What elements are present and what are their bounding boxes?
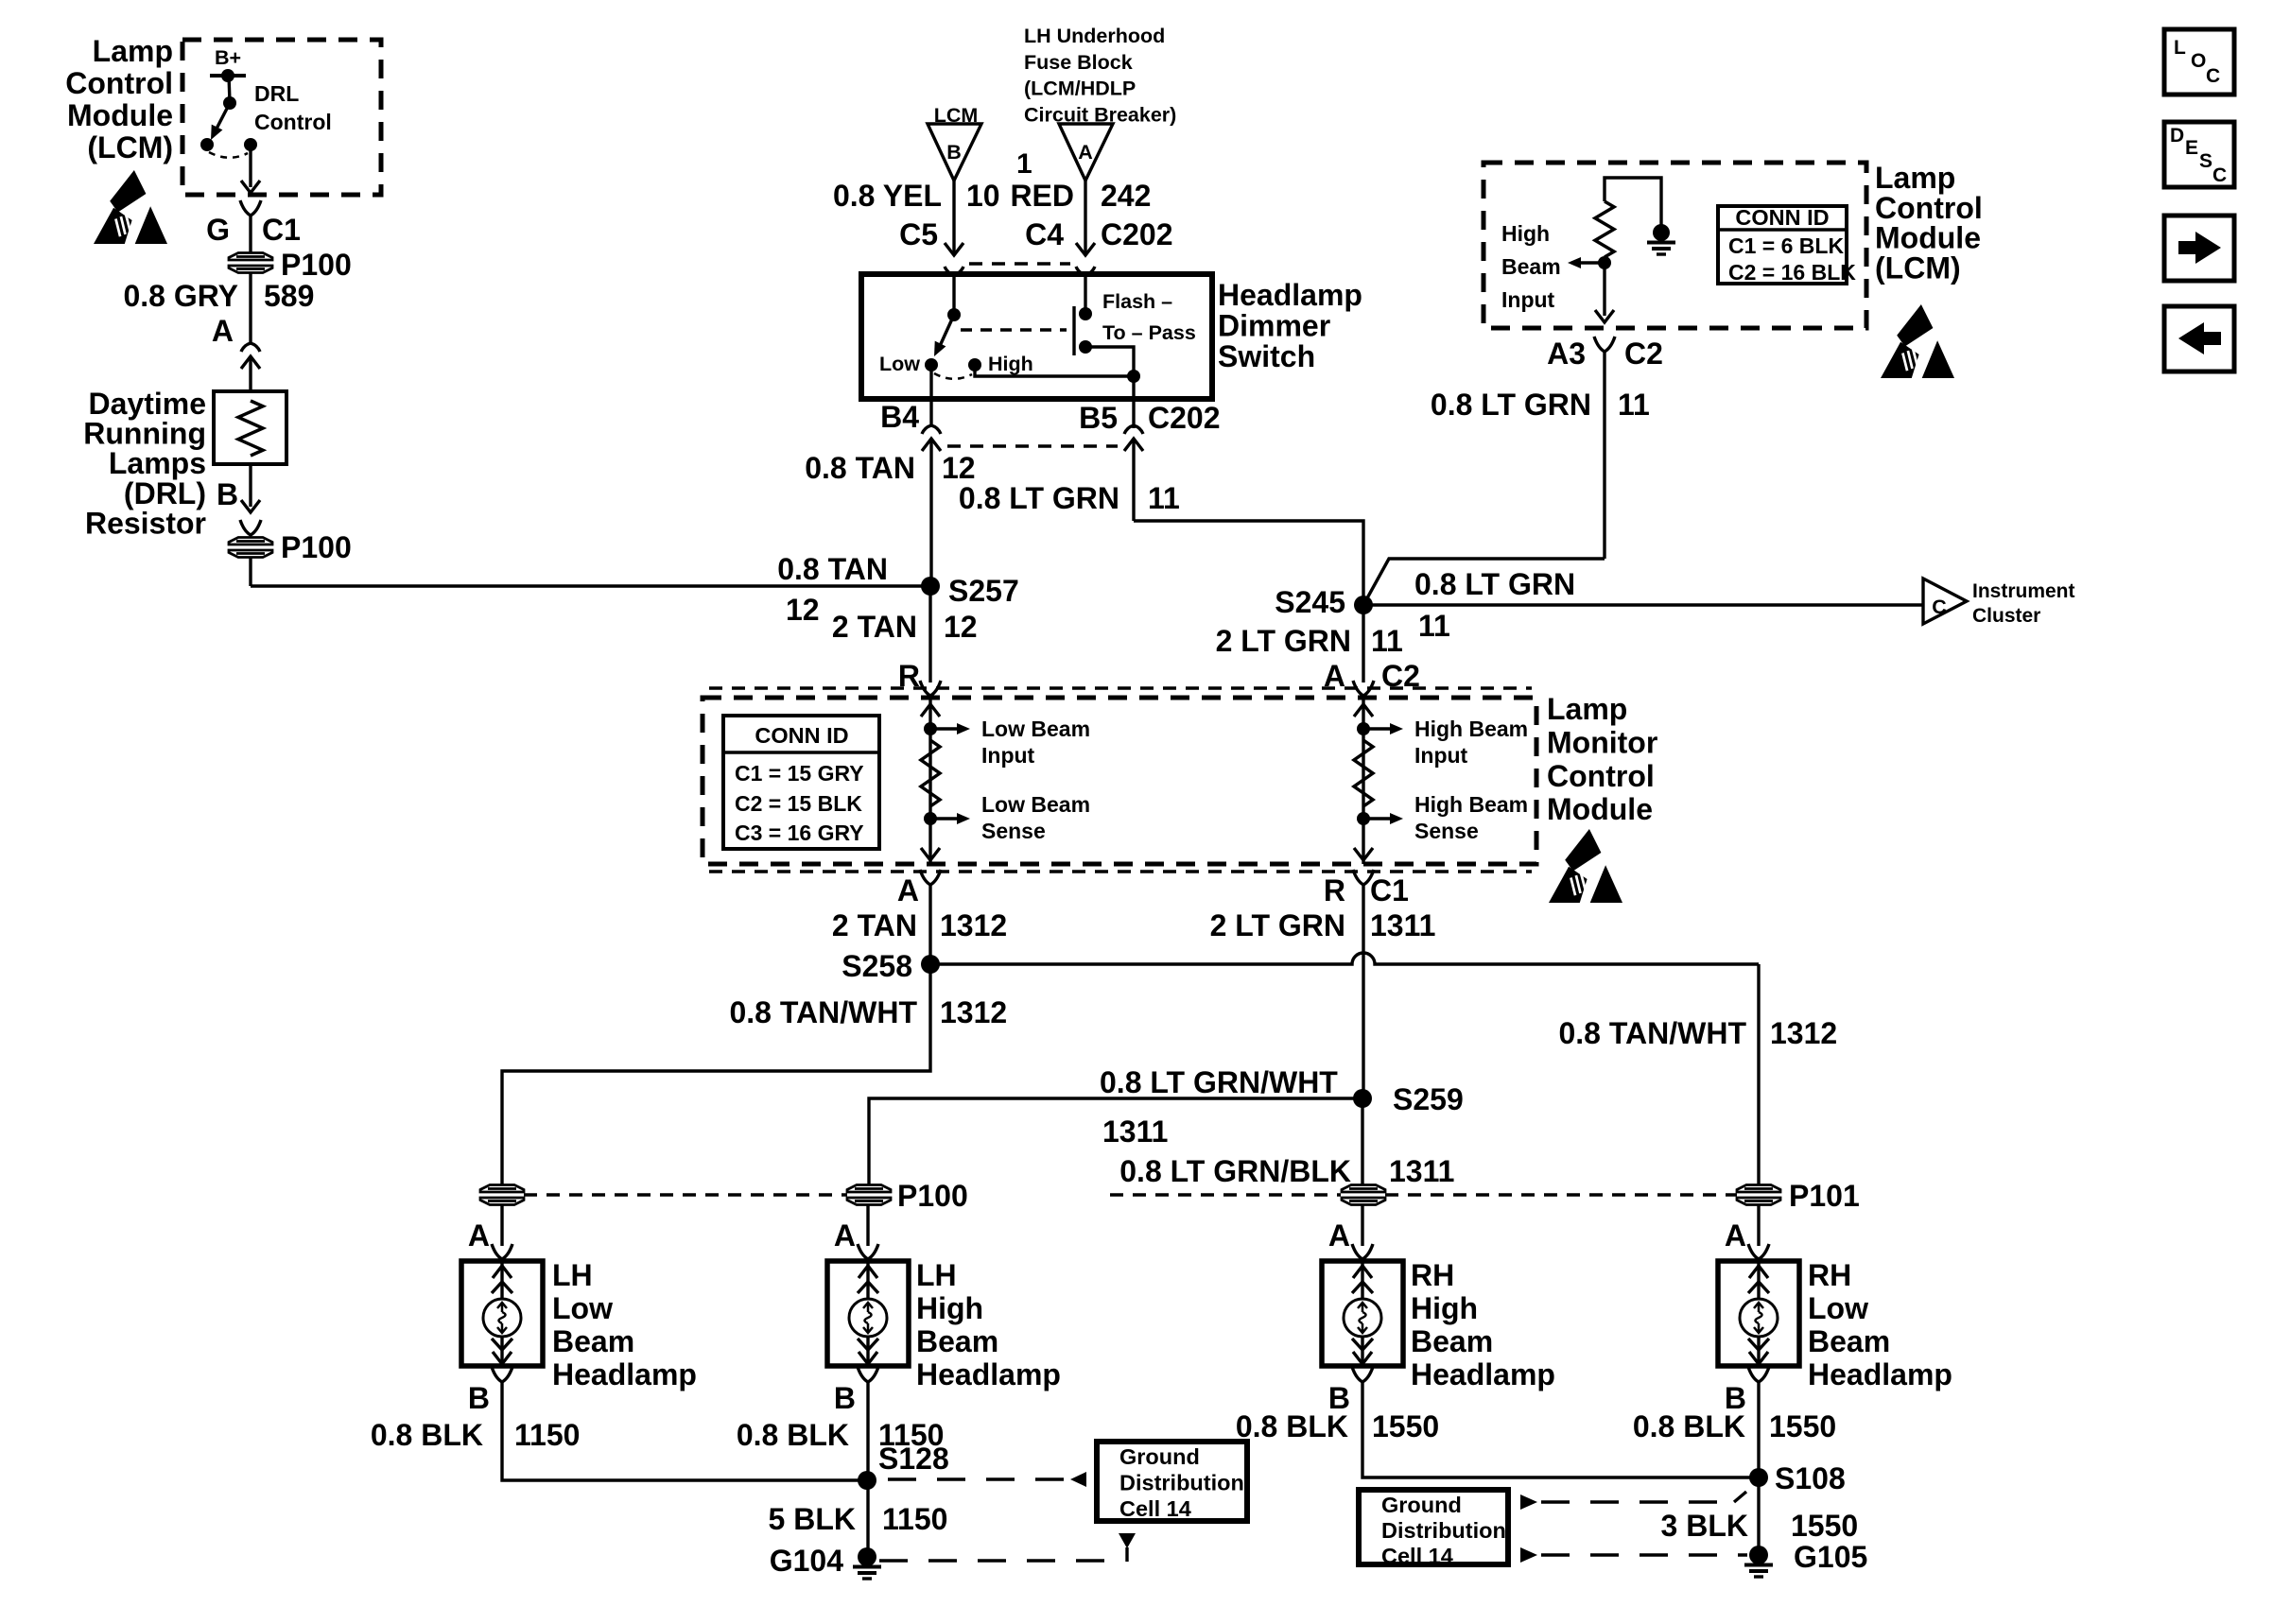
- svg-text:C1 = 6 BLK: C1 = 6 BLK: [1728, 233, 1844, 258]
- svg-text:1311: 1311: [1389, 1154, 1454, 1188]
- svg-text:High: High: [1501, 221, 1550, 246]
- svg-text:Module: Module: [1547, 792, 1653, 826]
- svg-text:12: 12: [942, 451, 976, 485]
- svg-text:Low: Low: [879, 353, 920, 375]
- svg-text:To – Pass: To – Pass: [1102, 321, 1196, 344]
- svg-text:1550: 1550: [1769, 1409, 1836, 1443]
- svg-text:Beam: Beam: [916, 1324, 998, 1358]
- svg-text:0.8 LT GRN: 0.8 LT GRN: [1431, 388, 1591, 422]
- connector P100 #2: [229, 538, 272, 545]
- pin B of RH High: [1352, 1367, 1373, 1382]
- connector C202 dashed line top: [969, 262, 1070, 265]
- svg-text:P100: P100: [281, 530, 352, 564]
- svg-text:B: B: [468, 1381, 490, 1415]
- B+ feed bar: [210, 74, 246, 78]
- svg-text:589: 589: [264, 279, 314, 313]
- LOC nav box: [2164, 29, 2234, 95]
- wire into LH High beam headlamp: [866, 1204, 869, 1246]
- wire RH high B to S108: [1362, 1381, 1759, 1477]
- svg-text:Instrument: Instrument: [1972, 580, 2075, 602]
- svg-text:242: 242: [1101, 179, 1151, 213]
- svg-text:High: High: [988, 353, 1033, 375]
- svg-text:C2 = 16 BLK: C2 = 16 BLK: [1728, 260, 1856, 285]
- svg-text:C2 = 15 BLK: C2 = 15 BLK: [735, 791, 862, 816]
- dashed link arm to flash-to-pass: [961, 328, 1067, 331]
- svg-text:Flash –: Flash –: [1102, 290, 1172, 313]
- svg-text:Sense: Sense: [1414, 819, 1479, 843]
- svg-text:C2: C2: [1624, 337, 1663, 371]
- svg-text:1312: 1312: [940, 995, 1007, 1029]
- svg-text:LH: LH: [916, 1258, 957, 1292]
- svg-text:Beam: Beam: [552, 1324, 634, 1358]
- wire label 0.8 GRY 589: [249, 273, 252, 343]
- svg-text:Monitor: Monitor: [1547, 725, 1657, 759]
- svg-text:Control: Control: [254, 110, 332, 134]
- svg-text:Cell 14: Cell 14: [1119, 1496, 1191, 1521]
- ESD symbol middle: [1565, 829, 1601, 872]
- svg-text:0.8 YEL: 0.8 YEL: [833, 179, 942, 213]
- svg-text:Cell 14: Cell 14: [1381, 1544, 1453, 1568]
- flash-to-pass bar: [1072, 306, 1075, 355]
- low beam resistor leg: [928, 698, 931, 864]
- svg-text:CONN ID: CONN ID: [1735, 205, 1829, 230]
- wire C5 into dimmer switch: [952, 275, 955, 312]
- junction S258: [921, 955, 940, 974]
- svg-text:DRL: DRL: [254, 81, 299, 106]
- svg-text:B+: B+: [215, 46, 241, 69]
- junction S259: [1353, 1089, 1372, 1108]
- svg-text:S259: S259: [1393, 1082, 1464, 1116]
- high beam resistor leg: [1362, 698, 1364, 864]
- svg-text:R: R: [1324, 873, 1345, 907]
- svg-text:C1 = 15 GRY: C1 = 15 GRY: [735, 761, 864, 786]
- svg-text:S: S: [2199, 150, 2212, 172]
- B4 inline connector male/female: [922, 425, 941, 434]
- wire S258 right to RH low branch with hop: [930, 953, 1759, 964]
- svg-text:Lamp: Lamp: [1875, 161, 1955, 195]
- svg-text:B: B: [946, 141, 962, 164]
- svg-text:1550: 1550: [1372, 1409, 1439, 1443]
- pin B of LH High: [858, 1367, 878, 1382]
- wire: DRL control output: [249, 145, 252, 187]
- svg-text:LH Underhood: LH Underhood: [1024, 25, 1165, 47]
- svg-text:Fuse Block: Fuse Block: [1024, 51, 1133, 74]
- ground G104: [858, 1547, 876, 1566]
- thin dashed connector line top: [709, 686, 1532, 689]
- svg-text:0.8 TAN: 0.8 TAN: [805, 451, 915, 485]
- wire A3C2 down to S245: [1363, 559, 1605, 605]
- LH High Beam Headlamp box: [827, 1261, 909, 1366]
- svg-text:S108: S108: [1775, 1461, 1846, 1495]
- svg-text:Switch: Switch: [1218, 339, 1315, 373]
- wire 0.8 LT GRN 11 from B5: [1132, 439, 1135, 521]
- svg-text:Control: Control: [1547, 759, 1655, 793]
- internal resistor (right LCM): [1605, 178, 1661, 225]
- svg-text:0.8 LT GRN: 0.8 LT GRN: [1414, 567, 1575, 601]
- svg-text:P100: P100: [897, 1179, 968, 1213]
- svg-text:A: A: [1328, 1218, 1350, 1253]
- svg-text:E: E: [2185, 137, 2198, 159]
- svg-text:Beam: Beam: [1808, 1324, 1890, 1358]
- svg-text:A: A: [834, 1218, 856, 1253]
- svg-text:B5: B5: [1079, 401, 1118, 435]
- B5 inline connector male/female: [1124, 425, 1143, 434]
- svg-text:Control: Control: [1875, 191, 1983, 225]
- DRL switch stem: [229, 76, 230, 102]
- svg-text:RH: RH: [1411, 1258, 1454, 1292]
- svg-text:High Beam: High Beam: [1414, 717, 1528, 741]
- svg-text:Beam: Beam: [1411, 1324, 1493, 1358]
- connector RH high: [1342, 1185, 1385, 1193]
- svg-text:A: A: [1725, 1218, 1746, 1253]
- lamp monitor dashed box: [703, 698, 1536, 864]
- svg-text:B4: B4: [880, 400, 919, 434]
- internal ground (right LCM): [1653, 224, 1670, 241]
- RH High Beam Headlamp box: [1322, 1261, 1403, 1366]
- Headlamp Dimmer Switch box: [861, 274, 1212, 399]
- LCM dashed box top-left: [182, 40, 381, 195]
- svg-text:12: 12: [786, 593, 820, 627]
- wire LH high B to S128/G104: [866, 1381, 869, 1557]
- svg-text:2 LT GRN: 2 LT GRN: [1216, 624, 1351, 658]
- svg-text:11: 11: [1418, 609, 1450, 643]
- dimmer switch arm: [940, 315, 954, 346]
- wire S259 down to RH high branch: [1361, 1098, 1363, 1185]
- svg-text:G: G: [206, 213, 230, 247]
- svg-text:LH: LH: [552, 1258, 593, 1292]
- svg-text:High: High: [916, 1291, 983, 1325]
- svg-text:C202: C202: [1148, 401, 1221, 435]
- svg-text:Daytime: Daytime: [89, 387, 207, 421]
- wire 0.8 TAN 12 from B4 to S257: [929, 439, 932, 586]
- wire Low contact down to B4: [929, 365, 932, 399]
- wire S259 left to LH high branch: [869, 1098, 1362, 1185]
- svg-text:10: 10: [966, 179, 1000, 213]
- wire S245 to instrument cluster: [1363, 603, 1923, 606]
- junction S257: [921, 577, 940, 596]
- svg-text:11: 11: [1371, 624, 1403, 658]
- connector P101 RH low: [1737, 1185, 1780, 1193]
- svg-text:(LCM): (LCM): [1875, 251, 1961, 285]
- LCM dashed box right: [1484, 163, 1866, 328]
- svg-text:2 TAN: 2 TAN: [832, 908, 917, 942]
- DRL switch dashed arc: [209, 152, 248, 158]
- svg-text:Running: Running: [83, 417, 206, 451]
- svg-text:Cluster: Cluster: [1972, 605, 2040, 627]
- dimmer contacts Low High: [925, 358, 938, 371]
- svg-text:Dimmer: Dimmer: [1218, 309, 1330, 343]
- svg-text:1150: 1150: [882, 1502, 947, 1536]
- flash lower contact: [1079, 340, 1092, 354]
- svg-text:Headlamp: Headlamp: [1218, 278, 1362, 312]
- wire High contact to B5 junction: [975, 365, 1134, 376]
- wire into RH Low beam headlamp: [1757, 1204, 1760, 1246]
- svg-text:0.8 LT GRN: 0.8 LT GRN: [959, 481, 1119, 515]
- svg-text:D: D: [2170, 125, 2184, 147]
- DRL resistor box: [214, 391, 286, 464]
- ground G105: [1749, 1546, 1768, 1564]
- svg-text:Beam: Beam: [1501, 254, 1561, 279]
- svg-text:Resistor: Resistor: [85, 506, 206, 540]
- ground distribution cell 14 box right: [1359, 1490, 1508, 1564]
- wire B5 over to S245: [1134, 521, 1363, 605]
- svg-text:11: 11: [1618, 388, 1650, 422]
- dashed ref to G105: [1520, 1547, 1537, 1563]
- svg-text:G104: G104: [770, 1544, 843, 1578]
- svg-text:0.8 TAN: 0.8 TAN: [777, 552, 888, 586]
- RH Low Beam Headlamp box: [1718, 1261, 1799, 1366]
- svg-text:1311: 1311: [1370, 908, 1435, 942]
- svg-text:L: L: [2174, 37, 2186, 59]
- svg-text:G105: G105: [1794, 1540, 1867, 1574]
- connector P100 #1: [229, 253, 272, 261]
- svg-text:3 BLK: 3 BLK: [1661, 1509, 1748, 1543]
- svg-text:0.8 TAN/WHT: 0.8 TAN/WHT: [729, 995, 917, 1029]
- triangle A (fuse block): [1059, 124, 1113, 181]
- svg-text:0.8 LT GRN/BLK: 0.8 LT GRN/BLK: [1119, 1154, 1351, 1188]
- svg-text:0.8 BLK: 0.8 BLK: [1236, 1409, 1348, 1443]
- svg-text:P100: P100: [281, 248, 352, 282]
- svg-text:C1: C1: [262, 213, 301, 247]
- R pin female: [920, 681, 941, 696]
- svg-text:Sense: Sense: [981, 819, 1046, 843]
- svg-text:Input: Input: [1501, 287, 1555, 312]
- svg-text:Control: Control: [65, 66, 173, 100]
- svg-text:C1: C1: [1370, 873, 1409, 907]
- dimmer dashed arc Low-High: [934, 373, 972, 379]
- ESD symbol right: [1897, 304, 1933, 347]
- svg-text:2 LT GRN: 2 LT GRN: [1210, 908, 1345, 942]
- A pin bottom female: [920, 870, 941, 885]
- svg-text:A: A: [468, 1218, 490, 1253]
- svg-text:S128: S128: [878, 1442, 949, 1476]
- dashed ref G104 to ground distribution: [879, 1559, 1104, 1562]
- svg-text:12: 12: [944, 610, 978, 644]
- svg-text:A3: A3: [1547, 337, 1586, 371]
- svg-text:5 BLK: 5 BLK: [769, 1502, 856, 1536]
- svg-text:11: 11: [1148, 481, 1180, 515]
- svg-text:B: B: [217, 477, 238, 511]
- svg-text:2 TAN: 2 TAN: [832, 610, 917, 644]
- svg-text:0.8 BLK: 0.8 BLK: [1633, 1409, 1745, 1443]
- C4 inline connector male/female: [1076, 243, 1095, 255]
- svg-text:Lamps: Lamps: [109, 446, 206, 480]
- svg-text:C: C: [2206, 65, 2220, 87]
- svg-text:Distribution: Distribution: [1381, 1518, 1506, 1543]
- wire down from resistor to A3 C2: [1603, 263, 1605, 316]
- svg-text:Low Beam: Low Beam: [981, 792, 1090, 817]
- svg-text:S257: S257: [948, 574, 1019, 608]
- C202 bottom dashed line: [947, 444, 1118, 447]
- wire flash contact to B5 junction: [1085, 347, 1134, 373]
- svg-text:High: High: [1411, 1291, 1478, 1325]
- svg-text:A: A: [897, 873, 919, 907]
- DESC nav box: [2164, 122, 2234, 187]
- wire S245 down to lamp monitor A pin: [1362, 605, 1364, 682]
- svg-text:C: C: [2212, 164, 2227, 186]
- svg-text:C: C: [1932, 596, 1947, 618]
- svg-text:S245: S245: [1275, 585, 1345, 619]
- svg-text:Headlamp: Headlamp: [916, 1357, 1061, 1391]
- dashed line P100-P101: [524, 1193, 847, 1196]
- svg-text:1: 1: [1016, 148, 1032, 180]
- svg-text:0.8 LT GRN/WHT: 0.8 LT GRN/WHT: [1100, 1065, 1338, 1099]
- DRL switch contacts: [200, 138, 214, 151]
- dashed ref S128 to ground distribution: [888, 1477, 1067, 1480]
- pin G C1 female: [240, 200, 261, 216]
- svg-text:1312: 1312: [1770, 1016, 1837, 1050]
- svg-text:0.8 GRY: 0.8 GRY: [123, 279, 238, 313]
- svg-text:S258: S258: [842, 949, 912, 983]
- svg-text:Ground: Ground: [1119, 1444, 1200, 1469]
- prev arrow nav box: [2164, 306, 2234, 371]
- svg-text:O: O: [2191, 50, 2206, 72]
- svg-text:C4: C4: [1025, 217, 1064, 251]
- svg-text:Input: Input: [981, 743, 1035, 768]
- svg-text:Low: Low: [552, 1291, 613, 1325]
- svg-text:Ground: Ground: [1381, 1493, 1462, 1517]
- svg-text:Module: Module: [67, 98, 173, 132]
- connector P100 LH low: [480, 1185, 524, 1193]
- pin B of LH Low: [492, 1367, 512, 1382]
- triangle B (from LCM): [928, 124, 981, 181]
- R C1 pin bottom female: [1353, 870, 1374, 885]
- svg-text:C202: C202: [1101, 217, 1173, 251]
- svg-text:1150: 1150: [514, 1418, 580, 1452]
- svg-text:Input: Input: [1414, 743, 1468, 768]
- svg-text:Distribution: Distribution: [1119, 1471, 1244, 1495]
- next arrow nav box: [2164, 216, 2234, 281]
- svg-text:Lamp: Lamp: [1547, 692, 1627, 726]
- svg-text:Headlamp: Headlamp: [1411, 1357, 1555, 1391]
- wire RH low B to S108/G105: [1757, 1381, 1760, 1555]
- instrument cluster triangle C: [1923, 579, 1967, 624]
- svg-text:(LCM): (LCM): [87, 130, 173, 164]
- junction S108: [1749, 1468, 1768, 1487]
- dashed ref to S108 wire: [1520, 1494, 1537, 1510]
- thin dashed connector line bottom: [709, 870, 1532, 872]
- arrow to High Beam Input: [1581, 261, 1605, 264]
- svg-text:1550: 1550: [1791, 1509, 1858, 1543]
- A pin female: [1353, 681, 1374, 696]
- svg-text:1311: 1311: [1102, 1114, 1168, 1149]
- svg-text:(LCM/HDLP: (LCM/HDLP: [1024, 78, 1136, 100]
- svg-text:C3 = 16 GRY: C3 = 16 GRY: [735, 821, 864, 845]
- ground distribution cell 14 box left: [1097, 1442, 1247, 1521]
- pin B of RH Low: [1748, 1367, 1769, 1382]
- wire into LH Low beam headlamp: [500, 1204, 503, 1246]
- svg-text:Lamp: Lamp: [93, 34, 173, 68]
- svg-text:P101: P101: [1789, 1179, 1860, 1213]
- wire B5 junction down: [1132, 376, 1135, 428]
- svg-text:(DRL): (DRL): [124, 476, 206, 510]
- junction S128: [858, 1471, 876, 1490]
- DRL switch arm: [216, 103, 230, 130]
- connector P100 LH high: [847, 1185, 891, 1193]
- wire 0.8 YEL 10 from LCM B: [952, 181, 955, 250]
- ESD symbol left: [110, 170, 146, 213]
- svg-text:Low: Low: [1808, 1291, 1868, 1325]
- wire: DRL resistor to S257: [249, 558, 252, 586]
- svg-text:Module: Module: [1875, 221, 1981, 255]
- svg-text:High Beam: High Beam: [1414, 792, 1528, 817]
- svg-text:Low Beam: Low Beam: [981, 717, 1090, 741]
- svg-text:0.8 BLK: 0.8 BLK: [371, 1418, 483, 1452]
- junction S245: [1354, 596, 1373, 614]
- svg-text:A: A: [1078, 141, 1093, 164]
- svg-text:CONN ID: CONN ID: [755, 723, 848, 748]
- svg-text:C5: C5: [899, 217, 938, 251]
- C5 inline connector male/female: [945, 243, 963, 255]
- wire LH low B to S128: [502, 1381, 867, 1480]
- wire into RH High beam headlamp: [1361, 1204, 1363, 1246]
- wire C4 into flash contact: [1084, 275, 1086, 310]
- CONN ID table right: [1718, 206, 1847, 284]
- svg-text:0.8 TAN/WHT: 0.8 TAN/WHT: [1558, 1016, 1746, 1050]
- svg-text:RH: RH: [1808, 1258, 1851, 1292]
- LH Low Beam Headlamp box: [461, 1261, 543, 1366]
- svg-text:1312: 1312: [940, 908, 1007, 942]
- svg-text:A: A: [212, 314, 234, 348]
- wire 1 RED 242 from fuse block: [1084, 181, 1086, 250]
- svg-text:B: B: [834, 1381, 856, 1415]
- CONN ID table left: [723, 716, 879, 849]
- wire S257 down to lamp monitor R pin: [928, 586, 931, 682]
- svg-text:Headlamp: Headlamp: [552, 1357, 697, 1391]
- svg-text:0.8 BLK: 0.8 BLK: [737, 1418, 849, 1452]
- svg-text:Headlamp: Headlamp: [1808, 1357, 1952, 1391]
- svg-text:RED: RED: [1010, 179, 1074, 213]
